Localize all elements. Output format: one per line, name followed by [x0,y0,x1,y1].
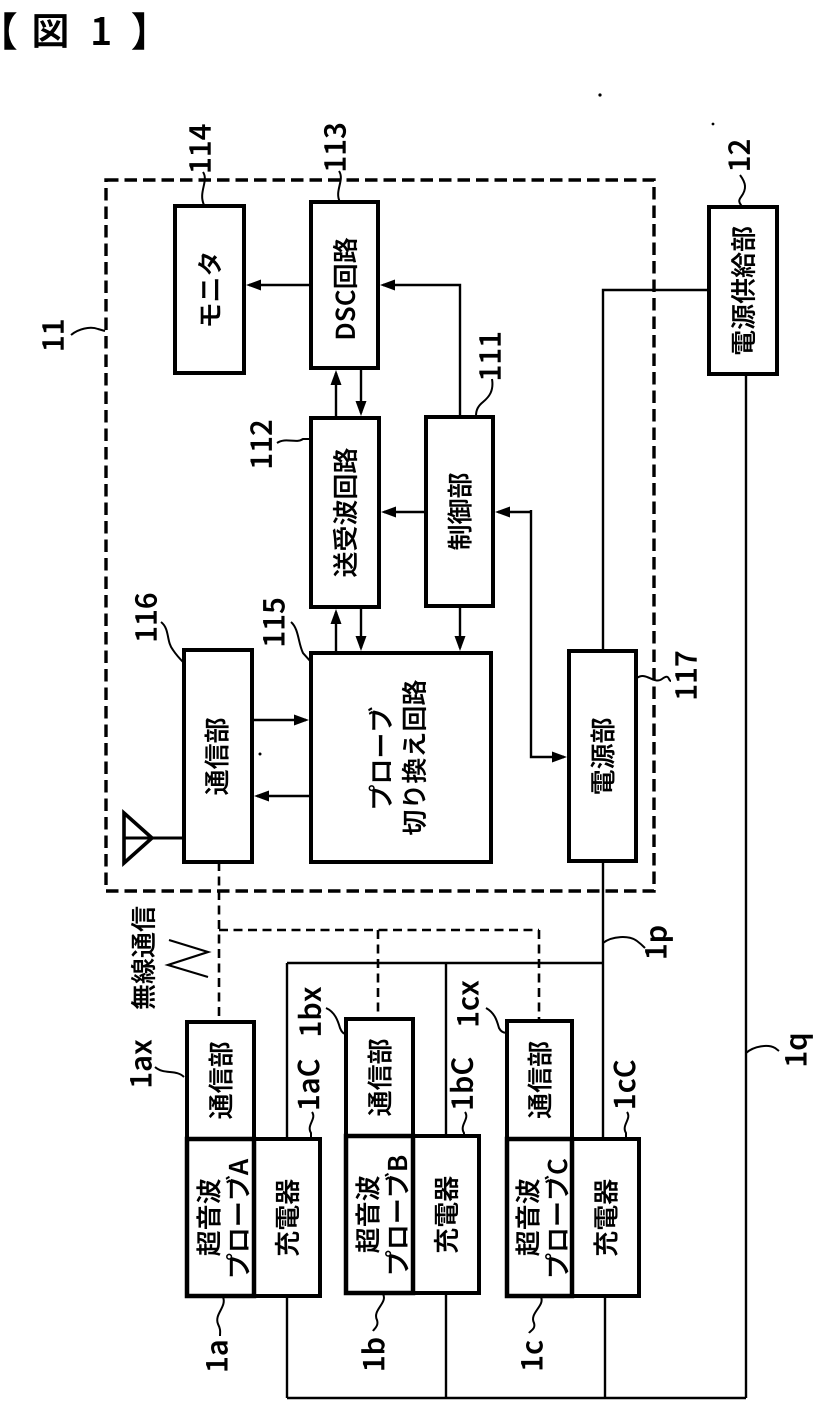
arrowhead into DSC bottom [331,370,342,385]
label 116 [135,594,157,641]
leader leader 112 [277,439,311,443]
leader leader 113 [338,171,341,202]
wire 充電器C→bottom bus [604,1296,606,1398]
wire 制御部→送受波 [384,511,426,513]
label 1p [645,926,673,957]
label 11 [42,320,63,349]
text DSC回路 [333,238,357,338]
arrowhead into 電源部 [552,752,567,763]
wire wireless branch h [219,929,539,932]
label 112 [250,421,272,468]
box 115 プローブ切り換え回路 [311,653,491,862]
arrowhead into DSC回路 [380,280,395,291]
label 111 [479,333,500,379]
text 超音波 A [196,1179,220,1256]
arrowhead into 通信部 [254,791,269,802]
label 1bx [298,987,322,1035]
speck [712,123,715,126]
label 1c [521,1341,543,1370]
wire 電源部→充電器C (1p) [602,861,604,1139]
arrowhead into 送受波 top [356,401,367,416]
leader leader 1b [373,1294,384,1331]
text 通信部(116) [204,718,228,795]
text 送受波回路 [333,448,357,577]
leader leader 12 [739,175,745,207]
wire 通信部→プローブ切換 [252,719,306,721]
leader leader 116 [161,622,184,663]
label 1a [206,1341,228,1370]
text プローブC [545,1159,569,1276]
text 無線通信 [131,907,155,1009]
label 1bC [450,1058,474,1109]
box 1cx 通信部 C [507,1021,572,1139]
text モニタ [198,253,221,325]
antenna on 通信部 116 [124,813,152,863]
box 1aC 充電器 A [254,1139,320,1296]
wire 充電器A→bottom bus [286,1296,288,1398]
text 通信部(1bx) [367,1039,391,1116]
box 113 DSC回路 [311,202,378,368]
leader leader 1bx [326,1008,346,1034]
header 図 [34,14,66,48]
leader leader 117 [637,676,671,681]
wire power branch→充電器A [286,963,288,1139]
label 1cx [457,981,479,1026]
box 116 通信部 [184,650,252,862]
text プローブA [226,1159,250,1277]
label 114 [189,124,210,171]
text 電源供給部 [731,227,755,355]
text プローブ [368,707,392,807]
box 117 電源部 [569,651,636,861]
leader leader 1c [529,1297,542,1333]
leader leader 1cx [486,1008,507,1033]
label 1q [785,1035,813,1065]
label 1aC [297,1059,319,1108]
wire DSC→モニタ [249,284,311,286]
wire 電源供給部→bottom bus (1q) [745,374,747,1398]
label 115 [263,599,285,645]
box 1bC 充電器 B [413,1136,479,1293]
box 1ax 通信部 A [187,1022,254,1139]
wire 送受波→プローブ切換 [360,607,362,648]
text プローブB [385,1156,409,1274]
box 1cC 充電器 C [572,1139,639,1296]
leader leader 1cC [625,1112,629,1138]
header 1 [93,17,109,45]
box 112 送受波回路 [311,418,379,607]
wire プローブ切換→通信部 [257,795,311,797]
speck [259,753,262,756]
box 1bx 通信部 B [346,1019,413,1136]
label 12 [728,140,750,170]
leader leader 1a [217,1297,224,1336]
arrowhead into プローブ切換 [294,715,309,726]
label 1ax [130,1040,152,1087]
text 充電器 B [434,1176,458,1253]
wire wireless →1cx [538,930,541,1021]
wire 制御部→DSC回路 [383,285,460,417]
box 1c 超音波プローブC [507,1139,572,1296]
wire プローブ切換→送受波 [335,612,337,653]
leader leader 11 [71,328,105,335]
wire bottom bus [287,1397,746,1399]
dashed border unit 11 [106,180,654,891]
label 1cC [613,1060,635,1108]
leader leader 1q [746,1046,779,1053]
wire 制御部↔電源部 v [531,510,564,757]
arrowhead into 送受波 bottom [331,609,342,624]
wire 制御部→プローブ切換 [459,606,461,648]
wire 電源供給部→電源部 [603,290,709,651]
label 113 [324,124,346,170]
text 充電器 C [593,1179,617,1256]
leader leader 1bC [463,1112,467,1136]
speck [598,93,601,96]
leader leader 1p [603,937,645,948]
text 電源部 [590,718,614,794]
text 制御部 [447,473,471,550]
wire DSC→送受波 down [360,368,362,413]
wire 送受波→DSC up [335,373,337,418]
label 1b [361,1338,385,1369]
text 超音波 C [515,1179,539,1256]
text 充電器 A [275,1179,299,1256]
leader leader 115 [291,622,311,662]
arrowhead into プローブ切換 top [455,636,466,651]
wire power bus horizontal [287,962,603,964]
text 通信部(1ax) [208,1042,232,1119]
leader leader 114 [202,172,205,205]
arrowhead into 送受波 [381,507,396,518]
arrowhead into モニタ [246,280,261,291]
text 切り換え回路 [402,680,426,835]
leader leader 1ax [155,1067,184,1077]
leader leader 111 [476,379,492,416]
header bracket [4,12,16,50]
wire power branch→充電器B [445,963,447,1136]
leader leader 1aC [310,1112,314,1138]
arrowhead into プローブ切換 [356,636,367,651]
header bracket close [132,12,144,50]
box 1b 超音波プローブB [346,1136,413,1293]
arrowhead into 制御部 [495,507,510,518]
text 超音波 B [355,1176,379,1253]
box 114 monitor モニタ [175,206,244,373]
box 111 制御部 [426,417,493,606]
wire 電源部↔制御部 h [498,511,531,513]
wireless zigzag symbol [168,940,208,977]
text 通信部(1cx) [527,1042,551,1119]
wire 充電器B→bottom bus [445,1293,447,1398]
box 1a 超音波プローブA [187,1139,254,1296]
wire wireless 通信部→1ax [218,862,221,1022]
wire wireless →1bx [377,930,380,1019]
label 117 [675,652,696,699]
box 12 電源供給部 [709,207,777,374]
